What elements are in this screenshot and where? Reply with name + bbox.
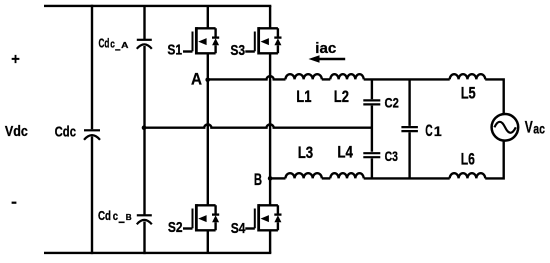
capacitor Cdc_A [137, 40, 152, 49]
wire bridge leg 2 [269, 6, 271, 253]
wire left DC input vertical [91, 5, 93, 254]
wire capacitor midpoint line with crossover hops [144, 125, 372, 128]
svg-text:S3: S3 [230, 43, 245, 59]
wire bottom DC rail [44, 252, 271, 254]
source Vac [492, 114, 519, 141]
svg-text:c: c [113, 211, 119, 223]
svg-text:ac: ac [533, 121, 545, 136]
svg-text:c: c [110, 39, 115, 51]
wire L4 to L6 bottom line [364, 177, 450, 179]
svg-text:B: B [126, 212, 132, 222]
svg-text:C3: C3 [385, 149, 399, 164]
svg-text:Cd: Cd [98, 208, 111, 223]
wire bridge leg 1 [207, 6, 209, 253]
wire L1-L2 [322, 78, 331, 80]
svg-text:L1: L1 [296, 88, 311, 106]
wire Cdc_B leg [143, 127, 145, 255]
wire node A output line with hop over leg 2 [208, 76, 286, 79]
svg-text:C: C [425, 121, 432, 140]
svg-text:1: 1 [434, 123, 442, 139]
capacitor C3 [363, 153, 380, 157]
svg-text:S2: S2 [168, 220, 183, 236]
label Cdc_B subscript [113, 211, 132, 223]
svg-text:L2: L2 [334, 88, 349, 106]
inductor L4 [330, 173, 363, 178]
svg-text:C2: C2 [385, 95, 399, 111]
wire top DC rail [44, 5, 271, 7]
capacitor C1 [401, 127, 418, 131]
wire L3-L4 [322, 177, 331, 179]
svg-text:L6: L6 [461, 150, 475, 168]
label - [12, 202, 17, 204]
transistor S4 [245, 204, 281, 231]
inductor L5 [450, 74, 486, 79]
transistor S1 [183, 27, 219, 54]
transistor S3 [245, 27, 281, 54]
capacitor Cdc_B [137, 215, 152, 224]
svg-text:L4: L4 [337, 143, 353, 161]
svg-text:+: + [11, 51, 20, 68]
wire C2 C3 branch vertical [371, 79, 373, 178]
wire L5 to Vac [485, 79, 503, 114]
node B [268, 176, 273, 181]
svg-text:A: A [191, 70, 202, 89]
capacitor C2 [363, 100, 380, 104]
wire C1 branch vertical [408, 79, 410, 178]
svg-text:A: A [121, 40, 129, 50]
svg-text:S1: S1 [167, 42, 182, 58]
svg-text:S4: S4 [231, 221, 246, 237]
node A [205, 78, 210, 83]
transistor S2 [183, 204, 219, 231]
wire L6 to Vac [485, 141, 503, 179]
wire node B output line [270, 177, 285, 179]
svg-text:B: B [254, 170, 262, 189]
svg-text:iac: iac [315, 41, 336, 57]
wire Cdc_A leg [143, 6, 145, 129]
svg-text:Vdc: Vdc [5, 123, 28, 140]
wire L2 to L5 top line [364, 78, 450, 80]
svg-text:Cd: Cd [99, 36, 110, 50]
inductor L2 [330, 74, 363, 79]
arrow iac [309, 55, 346, 63]
svg-text:Cdc: Cdc [55, 124, 76, 140]
junction dot capacitor midpoint [142, 125, 147, 130]
svg-text:L5: L5 [461, 84, 476, 102]
label Cdc_A subscript [110, 39, 129, 51]
capacitor Cdc [84, 130, 100, 140]
inductor L1 [286, 74, 322, 79]
inductor L3 [286, 173, 322, 178]
svg-text:V: V [525, 118, 533, 137]
inductor L6 [450, 173, 486, 178]
svg-text:L3: L3 [298, 144, 314, 162]
